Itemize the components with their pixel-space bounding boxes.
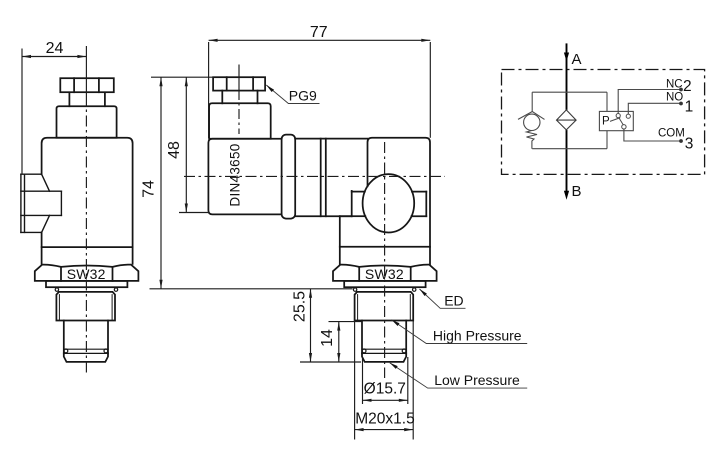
- dimension M20x1.5: [355, 321, 414, 440]
- svg-text:High Pressure: High Pressure: [433, 327, 522, 343]
- middle view: lower tube: [362, 321, 406, 354]
- dimension 74: [150, 77, 353, 289]
- svg-text:77: 77: [310, 24, 328, 41]
- schematic: terminal dot 2: [679, 88, 683, 92]
- svg-text:1: 1: [685, 98, 694, 115]
- schematic: switch actuator line: [610, 118, 620, 122]
- svg-text:M20x1.5: M20x1.5: [355, 410, 414, 427]
- left view: bottom cap: [64, 353, 108, 362]
- dimension Ø15.7: [363, 357, 408, 404]
- dimension 14: [300, 322, 362, 362]
- schematic: check valve ball circle: [524, 114, 540, 130]
- dimension 77: [209, 40, 431, 138]
- schematic: orifice diamond: [557, 110, 577, 130]
- middle view: DIN cap hex: [213, 77, 265, 90]
- schematic: dash-dot enclosure border: [502, 70, 705, 175]
- svg-text:PG9: PG9: [289, 88, 317, 104]
- leader PG9: [266, 85, 319, 104]
- svg-text:Low Pressure: Low Pressure: [434, 372, 520, 388]
- left view: solenoid cap hex: [60, 78, 114, 92]
- svg-text:NO: NO: [666, 92, 683, 104]
- svg-text:A: A: [572, 51, 582, 68]
- middle view: horizontal centerline: [184, 175, 445, 177]
- svg-text:ED: ED: [444, 292, 463, 308]
- svg-text:DIN43650: DIN43650: [228, 143, 243, 206]
- svg-text:SW32: SW32: [365, 266, 404, 282]
- middle view: coil tube: [295, 139, 367, 217]
- svg-text:SW32: SW32: [67, 266, 106, 282]
- svg-text:COM: COM: [658, 127, 685, 139]
- svg-text:B: B: [572, 183, 582, 200]
- left view: lower tube: [64, 321, 108, 354]
- svg-text:14: 14: [319, 329, 336, 347]
- schematic: port B flow line: [566, 130, 568, 193]
- schematic: check valve spring: [527, 131, 538, 149]
- svg-text:48: 48: [166, 141, 183, 159]
- svg-text:NC: NC: [666, 78, 683, 90]
- middle view: vertical body upper: [368, 138, 431, 265]
- svg-text:3: 3: [685, 136, 694, 153]
- svg-text:P: P: [602, 116, 610, 128]
- dimension 24: [22, 49, 86, 175]
- dimension 25.5: [310, 289, 312, 362]
- schematic: A arrowhead: [564, 53, 569, 62]
- middle view: bottom cap: [362, 353, 406, 362]
- svg-text:2: 2: [683, 78, 692, 95]
- middle view: lower body: [340, 216, 430, 264]
- middle view: DIN upper block: [209, 103, 271, 138]
- schematic: B arrowhead: [564, 191, 569, 200]
- schematic: contact COM circle: [622, 125, 626, 129]
- middle view: o-ring groove: [362, 349, 406, 353]
- schematic: inner circuit rectangle: [532, 92, 607, 149]
- svg-text:Ø15.7: Ø15.7: [364, 380, 406, 397]
- schematic: contact NO circle: [626, 114, 630, 118]
- schematic: NC wire: [618, 90, 681, 114]
- svg-text:25.5: 25.5: [292, 291, 309, 322]
- middle view: washer o-ring dots: [353, 288, 416, 291]
- left view: o-ring groove: [64, 349, 108, 353]
- svg-text:24: 24: [46, 40, 64, 57]
- middle view: hex nut SW32: [333, 265, 437, 281]
- middle view: coil flange ring: [282, 135, 296, 219]
- schematic: COM wire: [624, 129, 681, 141]
- schematic: terminal dot 1: [679, 102, 683, 106]
- leader High Pressure: [392, 320, 528, 344]
- schematic: terminal dot 3: [679, 139, 683, 143]
- left view: side connector protrusion: [21, 174, 62, 232]
- leader Low Pressure: [390, 363, 528, 388]
- schematic: switch lever: [619, 118, 623, 125]
- left view: threaded section: [56, 292, 115, 321]
- left view: cap neck: [69, 92, 105, 106]
- middle view: DIN cap neck: [222, 91, 257, 104]
- middle view: clamp band: [352, 191, 427, 216]
- schematic: orifice cross line: [557, 119, 577, 121]
- middle view: spherical boss circle: [363, 174, 415, 232]
- schematic: NO wire: [628, 103, 681, 114]
- left view: washer o-ring dots: [55, 288, 118, 291]
- schematic: contact NC circle: [616, 114, 620, 118]
- middle view: DIN connector body: [208, 139, 281, 215]
- middle view: vertical centerline of DIN cap: [238, 65, 240, 101]
- schematic: pressure switch box: [599, 111, 633, 130]
- left view: upper block: [57, 106, 117, 138]
- dimension 48: [179, 77, 210, 212]
- middle view: washer: [344, 281, 425, 287]
- middle view: threaded section: [355, 292, 414, 321]
- leader ED: [420, 289, 466, 308]
- left view: centerline: [85, 46, 87, 107]
- left view: main body: [42, 138, 133, 264]
- middle view: vertical centerline of body: [384, 142, 386, 378]
- svg-text:74: 74: [141, 180, 158, 198]
- schematic: port A flow line: [566, 43, 568, 110]
- schematic: check valve seat: [518, 112, 545, 120]
- left view: washer: [46, 281, 127, 287]
- left view: hex nut SW32: [35, 265, 139, 281]
